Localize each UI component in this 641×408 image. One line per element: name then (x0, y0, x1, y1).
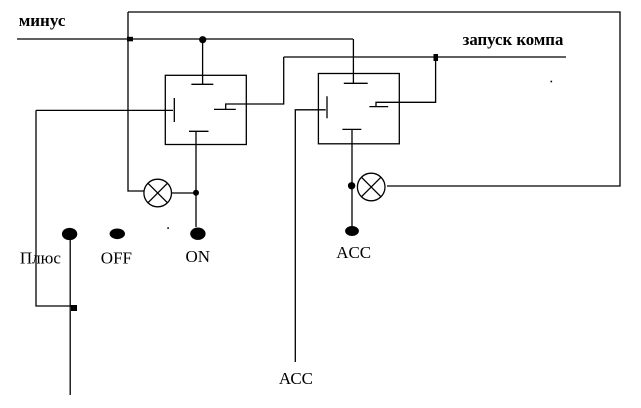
svg-text:ACC: ACC (336, 243, 371, 262)
svg-text:ON: ON (186, 247, 211, 266)
svg-text:OFF: OFF (101, 249, 132, 268)
svg-text:АСС: АСС (279, 369, 313, 388)
svg-text:запуск компа: запуск компа (463, 30, 564, 49)
svg-text:Плюс: Плюс (20, 249, 61, 268)
svg-text:минус: минус (19, 11, 66, 30)
